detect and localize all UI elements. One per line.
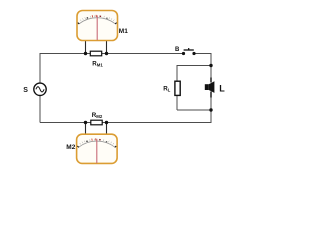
- resistor RM2: [91, 120, 102, 125]
- wire right vertical (top wire to branch junction): [210, 53, 212, 66]
- red apex marks: [92, 15, 96, 17]
- resistor RM1: [90, 51, 101, 56]
- end arrows: [77, 146, 116, 147]
- svg-text:L: L: [219, 84, 225, 94]
- wire branch left vertical (to RL top): [176, 65, 178, 81]
- end arrows: [78, 23, 117, 24]
- wire left vertical (below source): [39, 95, 41, 122]
- bold mid ticks: [86, 141, 87, 142]
- bold mid ticks: [87, 17, 88, 18]
- meter M2 lead right: [106, 123, 108, 135]
- speaker L: [205, 78, 215, 98]
- wire bottom: [40, 122, 211, 124]
- resistor RL: [175, 81, 180, 95]
- meter M1 lead right: [106, 40, 108, 53]
- junction dot RM1 right: [105, 52, 108, 55]
- svg-text:S: S: [23, 87, 28, 94]
- svg-text:B: B: [175, 47, 180, 53]
- wire top (left segment): [40, 53, 184, 55]
- wire top (right segment after switch): [194, 53, 211, 55]
- junction dot RM2 left: [84, 121, 87, 124]
- red apex marks: [92, 138, 96, 140]
- junction dot RM2 right: [105, 121, 108, 124]
- wire right vertical (bottom junction to bottom wire): [210, 110, 212, 123]
- switch B: [182, 48, 196, 55]
- svg-text:M2: M2: [66, 144, 75, 151]
- meter M1: [77, 11, 118, 41]
- wire left vertical (above source): [39, 53, 41, 83]
- meter M1 lead left: [85, 40, 87, 53]
- wire branch bottom horizontal: [177, 109, 211, 111]
- wire branch left vertical (RL bottom down): [176, 95, 178, 110]
- junction dot RM1 left: [84, 52, 87, 55]
- meter M2: [77, 134, 118, 163]
- svg-text:M1: M1: [119, 28, 128, 35]
- wire branch top horizontal: [177, 65, 211, 67]
- wire right vertical (speaker to bottom junction): [210, 93, 212, 110]
- junction dot branch bottom: [209, 108, 212, 111]
- wire right vertical (branch junction to speaker): [210, 66, 212, 82]
- meter M2 lead left: [85, 123, 87, 135]
- source S: [34, 83, 46, 95]
- junction dot branch top: [209, 64, 212, 67]
